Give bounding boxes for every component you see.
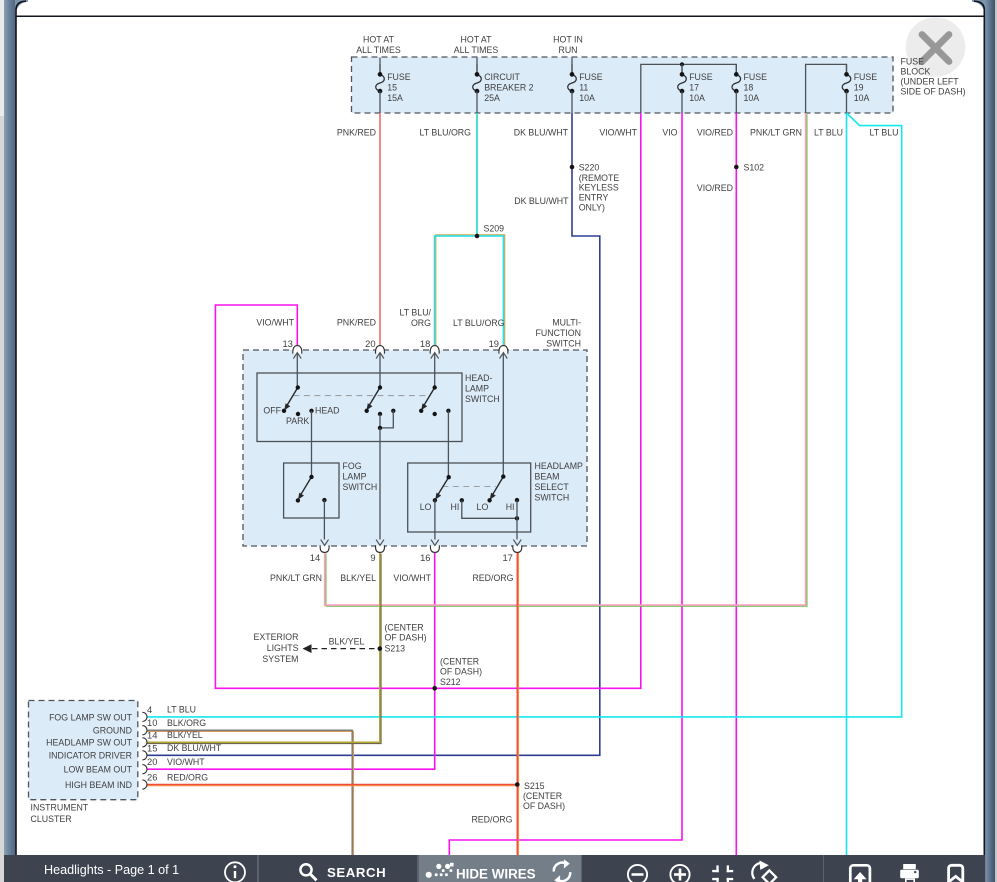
wire RED/ORG instrument cluster pin 26 to splice S215 — [144, 785, 518, 787]
wire HEAD contact to fog lamp switch — [311, 411, 313, 477]
MFS pin 17 — [502, 540, 521, 563]
beam select switch left section (LO/HI) — [420, 475, 464, 512]
close button — [906, 17, 966, 77]
wire headlamp switch section 2 to MFS pin 9 — [379, 428, 381, 540]
wire VIO/WHT MFS pin 16 through S212 to instrument cluster pin 20 — [144, 552, 435, 769]
power label HOT AT ALL TIMES (circuit breaker 2) — [454, 35, 499, 73]
right blue sidebar sliver — [985, 0, 995, 882]
instrument cluster pin 10 — [142, 726, 147, 735]
MFS pin 13 — [282, 338, 301, 359]
splice S212 — [432, 656, 482, 690]
fuse 19 10A — [842, 64, 877, 113]
splice S209 — [475, 224, 504, 239]
arrow to exterior lights system — [303, 644, 312, 653]
wire LT BLU fuse 19 straight down to bottom — [846, 113, 848, 856]
headlamp beam select switch box — [408, 463, 531, 532]
power label HOT IN RUN (fuse 11) — [553, 35, 583, 73]
wire PNK/LT GRN fuse block tap to MFS pin 14 — [326, 114, 807, 606]
wire LT BLU/ORG circuit breaker 2 to splice S209 — [476, 113, 478, 236]
label FUSE BLOCK (UNDER LEFT SIDE OF DASH) — [901, 57, 966, 97]
label HEADLAMP SWITCH — [465, 373, 500, 404]
toolbar separators — [257, 855, 259, 882]
wire BLK/ORG instrument cluster pin 10 to bottom — [145, 731, 354, 857]
wire MFS pin 19 to beam select switch common — [502, 353, 504, 477]
pin number 20 and wire label VIO/WHT — [147, 756, 205, 767]
headlamp switch section 1 (OFF/PARK/HEAD) — [263, 385, 339, 426]
fog lamp switch box — [284, 463, 339, 518]
wire VIO/WHT fuse block tap to S212, MFS pin 13 — [215, 113, 640, 688]
wire LT BLU fuse 19 branch to instrument cluster pin 4 — [144, 113, 902, 717]
label FOG LAMP SWITCH — [343, 461, 378, 492]
wire DK BLU/WHT fuse 11 to instrument cluster pin 15 — [144, 113, 600, 755]
instrument cluster pin 14 — [142, 738, 147, 747]
wire beam select HI junction to MFS pin 17 — [516, 500, 518, 539]
export icon (box with up arrow) — [850, 865, 870, 882]
bottom toolbar — [4, 855, 985, 882]
instrument cluster connector box — [29, 701, 138, 800]
headlamp switch section 3 — [419, 385, 451, 416]
fuse 15 15A — [376, 64, 411, 113]
wire MFS pin 13 to headlamp switch common — [296, 353, 298, 388]
wire fog lamp switch to MFS pin 14 — [323, 500, 325, 539]
rotate diamond icon — [752, 860, 776, 882]
svg-text:HIDE WIRES: HIDE WIRES — [456, 867, 536, 882]
pin number 14 and wire label BLK/YEL — [147, 729, 203, 740]
instrument cluster pin 4 — [142, 712, 147, 721]
wire PNK/RED fuse 15 to MFS pin 20 — [379, 113, 381, 348]
MFS pin 9 — [370, 540, 384, 563]
wire BLK/YEL instrument cluster pin 14 to MFS pin 9 via S213 — [145, 554, 381, 744]
wire beam select LO to MFS pin 16 — [434, 500, 436, 539]
wire VIO/RED fuse 18 to bottom — [735, 113, 737, 856]
fuse block internal rail to fuse 19 and PNK/LT GRN tap — [806, 64, 847, 113]
beam select switch right section (LO/HI) — [477, 474, 520, 520]
instrument cluster pin 26 — [142, 780, 147, 789]
MFS pin 16 — [420, 540, 439, 563]
MFS pin 20 — [365, 338, 384, 359]
search icon — [300, 864, 316, 880]
pin number 10 and wire label BLK/ORG — [147, 717, 206, 728]
right window gutter — [995, 0, 997, 882]
svg-text:SEARCH: SEARCH — [327, 865, 386, 880]
pin number 26 and wire label RED/ORG — [147, 772, 208, 783]
MFS pin 18 — [420, 338, 439, 359]
info icon — [225, 862, 245, 882]
hide wires icon (dots) — [426, 863, 454, 878]
fuse block connector box — [352, 57, 894, 113]
zoom in icon — [670, 865, 689, 882]
MFS pin 14 — [310, 540, 329, 563]
label HEADLAMP BEAM SELECT SWITCH — [535, 461, 584, 503]
zoom out icon — [628, 865, 647, 882]
headlamp switch section 2 — [365, 385, 396, 430]
dashed wire BLK/YEL S213 to exterior lights system — [309, 648, 375, 650]
toolbar title text — [44, 863, 179, 877]
fuse 17 10A — [678, 64, 713, 113]
wire headlamp switch section 3 to beam select switch — [447, 411, 449, 477]
splice S102 — [734, 163, 764, 173]
splice S220 — [570, 163, 620, 213]
wire MFS pin 20 to headlamp switch common — [379, 353, 381, 388]
multi-function switch connector box — [243, 350, 587, 546]
wire beam select left HI to junction — [462, 500, 517, 518]
wire RED/ORG MFS pin 17 to bottom — [518, 552, 520, 856]
power label HOT AT ALL TIMES (fuse 15) — [356, 35, 401, 73]
left window gutter — [0, 0, 4, 882]
pin number 4 and wire label LT BLU — [147, 704, 196, 715]
wire label LT BLU/ORG at MFS pin 18 — [400, 308, 432, 329]
fuse 18 10A — [732, 64, 767, 113]
left blue sidebar sliver — [4, 0, 16, 882]
fog lamp switch contacts — [296, 475, 327, 503]
splice S213 — [378, 622, 427, 653]
wire MFS pin 18 to headlamp switch common — [434, 353, 436, 388]
linkage dashed line headlamp switch — [293, 395, 425, 397]
refresh icon — [554, 859, 570, 882]
label INSTRUMENT CLUSTER — [31, 803, 89, 825]
fuse 11 10A — [568, 64, 603, 113]
instrument cluster pin 15 — [142, 751, 147, 760]
wire VIO fuse 17 to bottom — [449, 113, 682, 856]
bookmark icon — [949, 865, 963, 882]
pin number 15 and wire label DK BLU/WHT — [147, 742, 222, 753]
print icon — [900, 864, 919, 882]
label MULTI-FUNCTION SWITCH — [536, 318, 582, 349]
label EXTERIOR LIGHTS SYSTEM — [254, 632, 299, 664]
headlamp switch box — [257, 373, 462, 442]
circuit breaker 2 25A — [473, 64, 534, 113]
toolbar hide-wires active button background — [419, 855, 581, 882]
fuse block internal rail to fuses 17/18 and VIO/WHT tap — [641, 62, 737, 113]
MFS pin 19 — [489, 338, 508, 359]
fit/collapse icon — [712, 865, 733, 882]
linkage dashed line beam select switch — [442, 486, 496, 488]
splice S215 — [515, 781, 565, 811]
instrument cluster pin 20 — [142, 765, 147, 774]
wire LT BLU/ORG splice S209 to MFS pins 18 and 19 — [436, 235, 505, 347]
